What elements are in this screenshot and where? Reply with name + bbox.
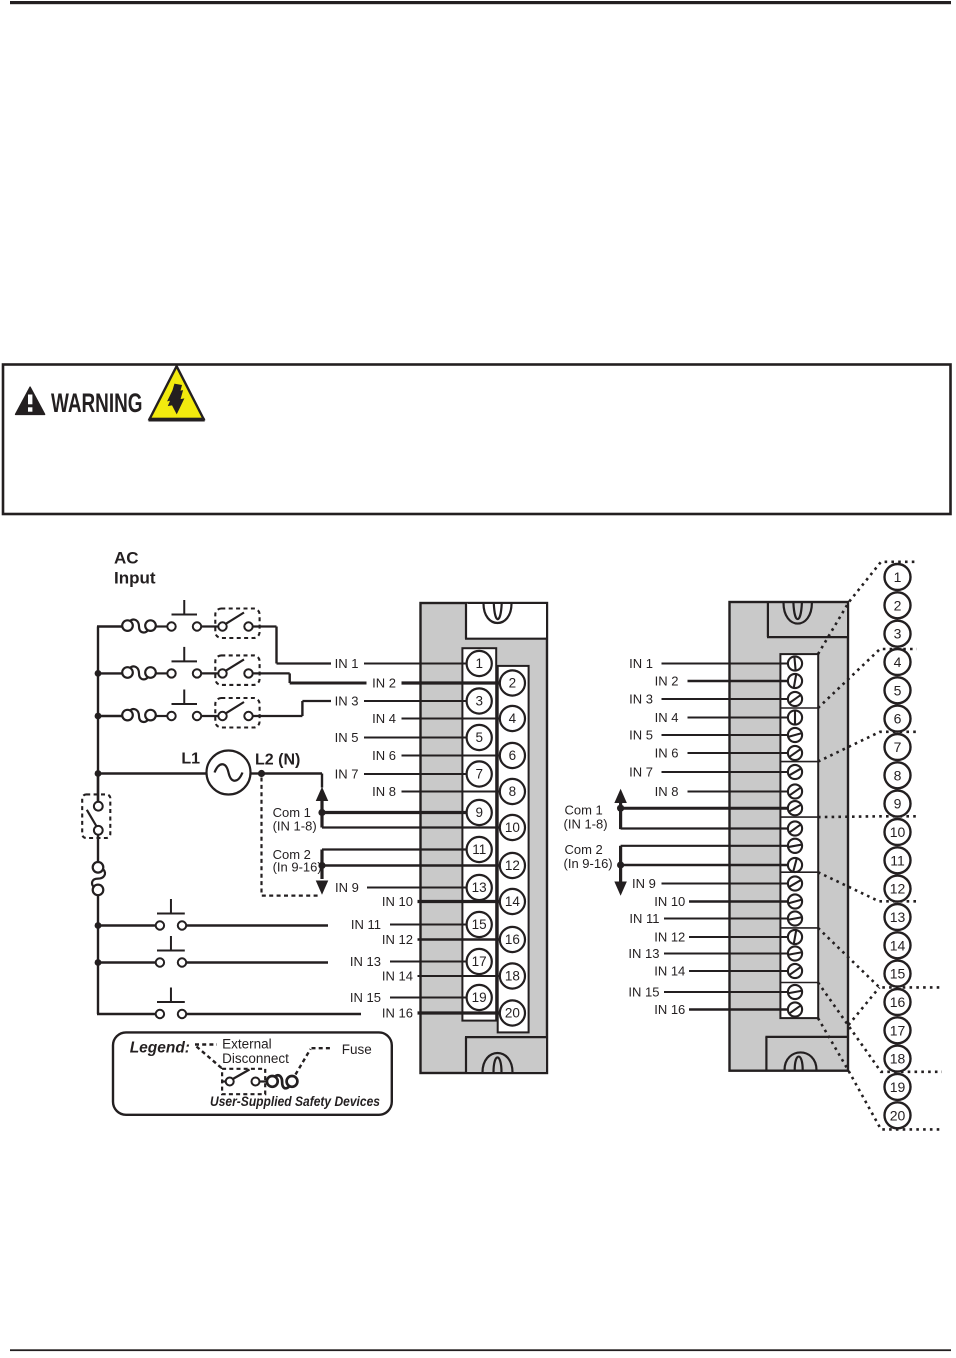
svg-text:2: 2: [509, 676, 517, 691]
L2 junction dot: [258, 770, 265, 777]
svg-text:IN 4: IN 4: [372, 711, 396, 726]
right com 2 down arrow: [615, 882, 626, 895]
svg-text:11: 11: [890, 852, 905, 868]
left wire IN 3 to terminal 3: [364, 700, 467, 702]
strip section divider: [780, 871, 818, 873]
svg-text:(IN 1-8): (IN 1-8): [564, 817, 608, 832]
svg-text:Legend:: Legend:: [130, 1040, 190, 1057]
high voltage warning triangle: [150, 366, 204, 419]
svg-text:IN 5: IN 5: [335, 730, 359, 745]
right wire IN 5 to screw 5: [662, 734, 789, 736]
wire disconnect to IN 2: [253, 672, 290, 674]
screw terminal 8: [788, 784, 802, 798]
svg-text:14: 14: [505, 894, 521, 909]
dotted connector group 13-15: [818, 872, 918, 901]
screw terminal 13: [788, 876, 802, 890]
right wire com 2 to screw 11: [621, 845, 789, 847]
svg-text:13: 13: [472, 880, 487, 895]
pin number 8: [885, 762, 911, 788]
svg-text:15: 15: [472, 917, 487, 932]
wire pushbutton IN 16 to label: [186, 1013, 361, 1015]
pin number 6: [885, 706, 911, 732]
svg-text:3: 3: [475, 694, 483, 709]
svg-text:3: 3: [894, 626, 902, 642]
bus junction dot IN 11 row: [95, 922, 102, 929]
bus junction dot row2: [95, 670, 102, 677]
left block top clamp screw: [484, 604, 512, 624]
external disconnect leader dashes: [195, 1043, 217, 1045]
svg-text:14: 14: [890, 937, 906, 953]
wire com 1 to terminal 9: [322, 811, 467, 814]
svg-text:IN 3: IN 3: [335, 694, 359, 709]
svg-text:Com 1: Com 1: [565, 803, 603, 818]
legend switch symbol: [222, 1080, 226, 1082]
svg-text:Com 2: Com 2: [565, 842, 603, 857]
dotted connector below 20: [818, 1018, 942, 1129]
svg-text:19: 19: [890, 1079, 906, 1095]
left terminal 9: [467, 800, 492, 825]
pin number 10: [885, 819, 911, 845]
screw terminal 14: [788, 894, 802, 908]
svg-text:Input: Input: [114, 569, 156, 588]
svg-text:20: 20: [890, 1107, 906, 1123]
svg-text:10: 10: [505, 820, 520, 835]
lightning bolt arrow: [168, 384, 184, 413]
right com 2 junction dot: [617, 861, 624, 868]
disconnect switch row 2: [218, 669, 226, 677]
svg-text:IN 10: IN 10: [654, 894, 685, 909]
right wire IN 10 to screw 14: [689, 900, 788, 902]
right wire IN 8 to screw 8: [688, 791, 789, 793]
screw terminal 4: [788, 710, 802, 724]
svg-text:L2 (N): L2 (N): [255, 752, 300, 769]
svg-text:IN 2: IN 2: [372, 676, 396, 691]
svg-text:WARNING: WARNING: [51, 388, 143, 418]
left block bottom clamp screw: [483, 1053, 513, 1073]
svg-text:IN 11: IN 11: [629, 911, 659, 926]
right com 1 up arrow: [615, 790, 626, 803]
external disconnect dashed box row 2: [215, 655, 259, 685]
svg-text:IN 4: IN 4: [655, 710, 679, 725]
svg-text:8: 8: [894, 767, 902, 783]
svg-text:11: 11: [472, 842, 486, 857]
screw terminal 18: [788, 964, 802, 978]
com 2 junction dot: [318, 862, 325, 869]
pushbutton contact row 1: [167, 622, 175, 630]
svg-text:IN 5: IN 5: [629, 728, 653, 743]
top header rule: [10, 1, 951, 4]
wire bus to AC source: [98, 772, 207, 774]
svg-text:IN 1: IN 1: [629, 656, 653, 671]
svg-text:20: 20: [505, 1006, 520, 1021]
svg-text:5: 5: [475, 730, 483, 745]
screw terminal 2: [788, 674, 802, 688]
left terminal 20: [500, 1000, 525, 1025]
strip section divider: [780, 761, 818, 763]
svg-text:IN 10: IN 10: [382, 894, 413, 909]
left block bottom screw notch: [466, 1038, 546, 1072]
svg-text:IN 6: IN 6: [372, 748, 396, 763]
wire fuse to pushbutton row 1: [156, 625, 168, 627]
legend box: [113, 1032, 392, 1114]
left terminal 15: [467, 912, 492, 937]
svg-text:IN 12: IN 12: [382, 932, 413, 947]
screw terminal 10: [788, 821, 802, 835]
wire com 2 to terminal 11: [322, 848, 467, 850]
screw terminal 6: [788, 746, 802, 760]
svg-text:17: 17: [472, 954, 487, 969]
svg-text:(IN 1-8): (IN 1-8): [273, 819, 317, 834]
svg-text:6: 6: [894, 711, 902, 727]
pushbutton contact row 2: [167, 669, 175, 677]
left wire IN 8 to terminal 8: [402, 791, 501, 793]
left terminal 14: [500, 889, 525, 914]
dotted connector group 4-6: [818, 649, 917, 708]
screw terminal 3: [788, 692, 802, 706]
left terminal 18: [500, 963, 525, 988]
bottom footer rule: [10, 1349, 951, 1351]
wire pushbutton IN 13 to label: [186, 961, 328, 963]
svg-text:7: 7: [894, 739, 902, 755]
wire pushbutton to disconnect row 3: [201, 715, 219, 717]
dotted connector group 10-12: [818, 815, 916, 818]
screw terminal 17: [788, 946, 802, 960]
svg-text:5: 5: [894, 682, 902, 698]
fuse branch row 3: [122, 710, 133, 721]
right wire IN 2 to screw 2: [688, 680, 789, 683]
pin number 4: [885, 649, 911, 675]
com 1 junction dot: [318, 809, 325, 816]
svg-text:4: 4: [894, 654, 902, 670]
fuse branch row 2: [122, 667, 133, 678]
left wire IN 13 to terminal 17: [390, 961, 467, 963]
left wire IN 15 to terminal 19: [390, 997, 467, 999]
svg-text:Disconnect: Disconnect: [222, 1051, 289, 1066]
svg-text:2: 2: [894, 597, 902, 613]
left block odd terminal strip: [462, 648, 496, 1020]
svg-text:User-Supplied Safety Devices: User-Supplied Safety Devices: [210, 1094, 380, 1109]
svg-text:16: 16: [505, 932, 520, 947]
wire L2 to com drop: [262, 772, 323, 774]
dotted connector group 16-18: [818, 928, 942, 988]
svg-text:L1: L1: [181, 751, 200, 768]
right wire IN 14 to screw 18: [689, 970, 788, 972]
pin number 7: [885, 734, 911, 760]
left terminal 3: [467, 688, 492, 713]
left wire IN 12 to terminal 16: [418, 938, 501, 940]
svg-text:13: 13: [890, 909, 906, 925]
warning alert triangle icon: [16, 387, 45, 414]
wire bus to pushbutton IN 11: [97, 924, 156, 926]
left terminal 1: [467, 651, 492, 676]
svg-text:16: 16: [890, 994, 906, 1010]
left wire IN 7 to terminal 7: [364, 773, 467, 775]
svg-text:External: External: [222, 1037, 272, 1052]
svg-text:18: 18: [505, 969, 520, 984]
svg-text:15: 15: [890, 966, 906, 982]
left wire IN 16 to terminal 20: [418, 1011, 501, 1014]
svg-text:IN 11: IN 11: [351, 917, 381, 932]
right block bottom screw notch: [765, 1037, 767, 1071]
wire bus to pushbutton IN 13: [97, 961, 156, 963]
svg-text:IN 6: IN 6: [655, 746, 679, 761]
pin number 17: [885, 1017, 911, 1043]
bus junction dot row3: [95, 713, 102, 720]
pin number 18: [885, 1046, 911, 1072]
AC source circle: [207, 751, 251, 795]
screw terminal 7: [788, 765, 802, 779]
disconnect switch row 3: [218, 712, 226, 720]
pushbutton IN 13: [156, 958, 164, 966]
wire branch row 3 from bus: [97, 715, 123, 717]
left wire IN 1 to terminal 1: [364, 663, 467, 665]
svg-text:IN 13: IN 13: [628, 946, 659, 961]
pin number 20: [885, 1102, 911, 1128]
left wire IN 2 to terminal 2: [402, 681, 501, 684]
pushbutton contact row 3: [167, 712, 175, 720]
right wire com 1 to screw 10: [621, 827, 789, 829]
screw terminal 11: [788, 839, 802, 853]
left terminal 12: [500, 853, 525, 878]
main disconnect switch: [97, 774, 99, 803]
line fuse: [93, 862, 104, 873]
left terminal 8: [500, 779, 525, 804]
strip section divider: [780, 816, 818, 818]
wire com 1 to terminal 10: [322, 826, 500, 828]
dotted connector group 1-3: [818, 562, 918, 654]
left terminal 19: [467, 985, 492, 1010]
right wire IN 4 to screw 4: [688, 717, 789, 719]
svg-text:1: 1: [894, 569, 902, 585]
legend disconnect dashed box: [222, 1069, 265, 1094]
wire fuse to pushbutton row 3: [156, 715, 168, 717]
external disconnect dashed box row 1: [215, 609, 259, 639]
svg-text:IN 9: IN 9: [632, 876, 656, 891]
left terminal 16: [500, 927, 525, 952]
right wire IN 7 to screw 7: [662, 771, 789, 773]
screw terminal 1: [788, 656, 802, 670]
left terminal 4: [500, 706, 525, 731]
pin number 5: [885, 677, 911, 703]
left wire IN 4 to terminal 4: [402, 718, 501, 720]
main disconnect dashed box: [82, 794, 110, 838]
right wire IN 13 to screw 17: [664, 953, 788, 955]
left wire IN 6 to terminal 6: [402, 755, 501, 757]
svg-text:(In 9-16): (In 9-16): [273, 859, 322, 874]
svg-text:IN 1: IN 1: [335, 656, 359, 671]
svg-text:9: 9: [894, 796, 902, 812]
warning box border: [3, 365, 951, 515]
svg-text:18: 18: [890, 1051, 906, 1067]
wire pushbutton to disconnect row 1: [201, 625, 219, 627]
left terminal 6: [500, 743, 525, 768]
svg-text:IN 14: IN 14: [382, 969, 413, 984]
svg-text:IN 2: IN 2: [655, 674, 679, 689]
left terminal 2: [500, 670, 525, 695]
strip section divider: [780, 927, 818, 929]
screw terminal 5: [788, 728, 802, 742]
left wire IN 11 to terminal 15: [390, 924, 467, 926]
bus junction dot IN 13 row: [95, 959, 102, 966]
wire fuse to pushbutton row 2: [156, 672, 168, 674]
pin number 11: [885, 847, 911, 873]
pin number 9: [885, 791, 911, 817]
svg-text:IN 13: IN 13: [350, 954, 381, 969]
right wire com 2 to screw 12: [621, 864, 789, 866]
svg-text:(In 9-16): (In 9-16): [564, 856, 613, 871]
left wire IN 10 to terminal 14: [418, 900, 501, 903]
left terminal 10: [500, 815, 525, 840]
svg-text:9: 9: [475, 805, 483, 820]
right terminal block body: [730, 602, 849, 1071]
left block even terminal strip: [498, 666, 529, 1033]
right block top screw notch: [768, 604, 847, 637]
pin number 12: [885, 876, 911, 902]
dotted connector group 7-9: [818, 732, 917, 762]
pin number 13: [885, 904, 911, 930]
right wire IN 11 to screw 15: [664, 918, 788, 920]
left wire IN 9 to terminal 13: [367, 887, 467, 889]
com 2 down arrow: [317, 881, 328, 894]
wire pushbutton IN 11 to label: [186, 924, 328, 926]
svg-text:IN 15: IN 15: [350, 990, 381, 1005]
wire branch row 1 from bus: [97, 625, 123, 627]
svg-text:7: 7: [475, 767, 483, 782]
pin number 16: [885, 989, 911, 1015]
right wire IN 16 to screw 20: [689, 1008, 788, 1011]
fuse branch row 1: [122, 620, 133, 631]
svg-text:IN 16: IN 16: [382, 1006, 413, 1021]
svg-text:8: 8: [509, 784, 517, 799]
svg-text:IN 9: IN 9: [335, 880, 359, 895]
wire disconnect to IN 1: [253, 625, 277, 627]
left wire IN 14 to terminal 18: [418, 975, 501, 977]
svg-text:17: 17: [890, 1022, 906, 1038]
wire branch row 2 from bus: [97, 672, 123, 674]
wire fuse to lower bus: [97, 895, 99, 1014]
svg-text:IN 8: IN 8: [372, 784, 396, 799]
strip section divider: [780, 982, 818, 984]
svg-text:Fuse: Fuse: [342, 1042, 372, 1057]
svg-text:IN 8: IN 8: [655, 784, 679, 799]
svg-text:4: 4: [509, 711, 517, 726]
left terminal 5: [467, 725, 492, 750]
svg-text:IN 15: IN 15: [628, 985, 659, 1000]
pin number 15: [885, 961, 911, 987]
svg-text:IN 3: IN 3: [629, 692, 653, 707]
screw terminal 9: [788, 801, 802, 815]
right wire IN 15 to screw 19: [664, 991, 788, 993]
svg-text:IN 7: IN 7: [629, 765, 653, 780]
pin number 1: [885, 564, 911, 590]
right wire IN 12 to screw 16: [689, 936, 788, 938]
right wire IN 6 to screw 6: [688, 752, 789, 754]
screw terminal 19: [788, 985, 802, 999]
wire disconnect to line fuse: [97, 835, 99, 862]
wire bus to pushbutton IN 16: [97, 1013, 156, 1015]
svg-text:12: 12: [890, 881, 906, 897]
svg-text:1: 1: [475, 656, 483, 671]
right wire IN 1 to screw 1: [662, 663, 789, 665]
left terminal block body: [421, 603, 548, 1073]
right block bottom clamp screw: [785, 1052, 817, 1070]
screw terminal 20: [788, 1002, 802, 1016]
pin number 14: [885, 932, 911, 958]
svg-text:12: 12: [505, 858, 520, 873]
disconnect switch row 1: [218, 622, 226, 630]
com 2 drop wire: [320, 850, 323, 880]
vertical supply bus wire: [97, 627, 99, 803]
screw terminal 16: [788, 930, 802, 944]
right block top clamp screw: [784, 603, 812, 624]
pin number 3: [885, 621, 911, 647]
wire AC source to L2 junction: [251, 772, 263, 774]
fuse leader dashes: [296, 1049, 311, 1075]
svg-text:19: 19: [472, 990, 487, 1005]
wire com 2 to terminal 12: [322, 864, 500, 866]
svg-text:6: 6: [509, 748, 517, 763]
screw terminal 15: [788, 911, 802, 925]
pushbutton IN 11: [156, 921, 164, 929]
left block top screw notch: [466, 603, 546, 639]
dashed neutral tie line: [262, 778, 319, 896]
svg-text:AC: AC: [114, 549, 139, 568]
right wire com 1 to screw 9: [621, 807, 789, 810]
com 1 up arrow: [317, 788, 328, 801]
dotted connector stub: [849, 987, 880, 1025]
screw terminal 12: [788, 858, 802, 872]
svg-text:IN 16: IN 16: [654, 1002, 685, 1017]
svg-text:IN 14: IN 14: [654, 964, 685, 979]
svg-text:IN 12: IN 12: [654, 930, 685, 945]
bus junction dot L1 feed: [95, 770, 102, 777]
left terminal 13: [467, 875, 492, 900]
right screw strip: [780, 654, 818, 1018]
wire pushbutton to disconnect row 2: [201, 672, 219, 674]
pin number 2: [885, 592, 911, 618]
left terminal 17: [467, 949, 492, 974]
wire disconnect to IN 3: [253, 715, 303, 717]
left terminal 11: [467, 837, 492, 862]
left wire IN 5 to terminal 5: [364, 737, 467, 739]
right com 1 junction dot: [617, 805, 624, 812]
svg-text:IN 7: IN 7: [335, 767, 359, 782]
dotted connector group 19-20: [818, 983, 942, 1072]
svg-text:10: 10: [890, 824, 906, 840]
pushbutton IN 16: [156, 1010, 164, 1018]
strip section divider: [780, 707, 818, 709]
external disconnect dashed box row 3: [215, 698, 259, 728]
left terminal 7: [467, 761, 492, 786]
right wire IN 9 to screw 13: [662, 883, 789, 885]
right wire IN 3 to screw 3: [662, 698, 789, 700]
pin number 19: [885, 1074, 911, 1100]
legend fuse symbol: [267, 1076, 278, 1087]
